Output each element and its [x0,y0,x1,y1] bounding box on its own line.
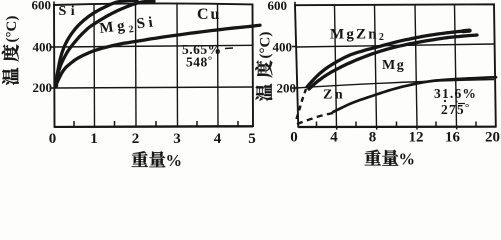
svg-text:31.6%: 31.6% [434,86,477,101]
curve Cu solubility (left chart) [56,25,261,86]
svg-text:400: 400 [273,40,293,55]
right chart y-axis tick 400 [292,46,296,48]
right y-axis title temperature (CJK glyphs wen du + (degC)) rotated [255,32,273,101]
svg-text:Zn: Zn [323,88,345,103]
svg-text:0: 0 [49,131,57,147]
right chart below-axis tick x=16 [456,127,458,130]
dashed extrapolation feeding Zn curve [297,113,333,124]
svg-text:275°: 275° [441,102,470,117]
left y-axis title temperature (CJK glyphs wen du + (degC)) rotated [2,16,20,85]
overline on 5 of 275 [458,103,465,105]
right chart gridline x=4 [335,5,337,127]
curve MgZn2 end blob [463,29,470,34]
left chart gridline 400C [54,45,253,47]
right chart y-axis tick 600 (stub above top border) [294,2,296,6]
svg-text:200: 200 [277,81,297,96]
annotation dash after 5.65% [225,47,233,50]
left chart y-axis tick 200 [51,87,55,89]
emphasis dot under 6 of 31.6% [455,100,457,102]
left chart gridline x=2 [135,3,138,127]
right chart y-axis tick 200 [292,87,296,89]
svg-text:400: 400 [33,40,53,55]
svg-text:8: 8 [369,130,377,146]
curve Mg2Si (left chart) [55,1,154,85]
svg-text:(°C): (°C) [4,16,20,43]
left chart gridline x=4 [217,3,220,126]
left chart minor tick x=1.5 [114,121,116,127]
right chart minor tick x=14 [435,122,437,127]
left chart plot border [54,3,253,126]
svg-text:0: 0 [290,130,298,146]
left x-axis title weight% (CJK glyphs zhong liang + %) [132,151,166,167]
svg-text:Cu: Cu [197,6,221,23]
svg-text:3: 3 [173,131,181,147]
svg-text:200: 200 [33,80,53,95]
right chart gridline 200C [296,80,494,89]
svg-text:Mg: Mg [382,58,405,73]
right chart bottom axis overlay (thicker axis line) [299,126,497,128]
svg-text:20: 20 [485,130,500,146]
right chart minor tick x=6 [355,122,357,127]
right chart gridline x=8 [375,5,377,127]
left chart y-axis tick 400 [51,46,55,48]
right chart minor tick x=18 [475,122,477,127]
right chart below-axis tick x=4 [336,127,338,130]
svg-text:600: 600 [268,0,288,13]
curve Si (left chart) [55,1,137,86]
svg-text:MgZn2: MgZn2 [330,27,386,44]
right x-axis title weight% (CJK glyphs zhong liang + %) [365,150,399,166]
svg-text:12: 12 [409,130,424,146]
right chart gridline 400C [296,44,494,47]
right chart below-axis tick x=8 [376,127,378,130]
right chart minor tick x=2 [316,122,318,127]
left chart gridline x=1 [93,4,96,127]
left chart minor tick x=2.5 [155,121,157,126]
svg-text:Si: Si [59,4,80,19]
right chart plot border [295,4,496,127]
left chart minor tick x=4.5 [237,121,239,126]
svg-text:548°: 548° [186,55,213,70]
svg-text:4: 4 [330,130,338,146]
right chart below-axis tick x=12 [416,127,418,130]
left chart y-axis tick 600 (stub above top border) [53,2,55,7]
fan junction blob at curve origin [54,83,59,88]
svg-text:%: % [166,151,183,169]
svg-text:%: % [399,150,416,169]
svg-text:5: 5 [248,131,256,147]
svg-text:Mg2Si: Mg2Si [99,14,158,39]
svg-text:4: 4 [214,131,222,147]
svg-text:(°C): (°C) [258,32,274,59]
left chart gridline 200C [54,87,253,88]
left chart minor tick x=0.5 [73,121,75,127]
svg-text:1: 1 [90,131,98,147]
svg-text:16: 16 [445,130,461,146]
svg-text:2: 2 [132,131,140,147]
right chart minor tick x=10 [396,122,398,127]
curve MgZn2 (right chart) [307,31,470,87]
left chart minor tick x=3.5 [196,121,198,126]
right chart gridline x=12 [415,5,417,127]
svg-text:600: 600 [32,0,52,13]
curve Zn solid (right chart) [333,77,496,112]
right chart gridline x=16 [455,5,457,127]
curve Mg (right chart) [309,35,477,89]
emphasis dot under 1 of 31.6% [444,100,446,102]
left chart gridline x=3 [176,3,179,127]
left chart bottom axis overlay (thicker axis line) [54,126,253,129]
dashed extrapolation feeding MgZn2/Mg curves [297,89,307,119]
